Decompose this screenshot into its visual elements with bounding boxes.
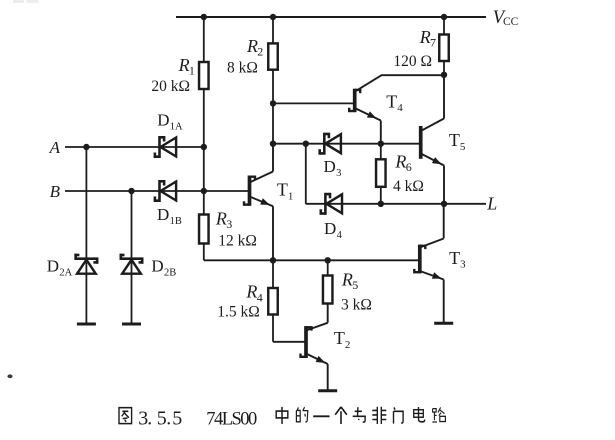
svg-text:B: B	[50, 182, 61, 201]
svg-text:.: .	[166, 408, 171, 430]
svg-text:D: D	[151, 256, 163, 275]
svg-text:D: D	[47, 256, 59, 275]
svg-text:3 kΩ: 3 kΩ	[341, 296, 372, 313]
svg-text:3: 3	[226, 217, 232, 231]
svg-text:2A: 2A	[59, 267, 72, 278]
svg-text:D: D	[157, 110, 169, 129]
svg-text:2: 2	[257, 44, 263, 58]
svg-text:6: 6	[406, 160, 412, 174]
svg-text:D: D	[157, 205, 169, 224]
svg-text:1: 1	[288, 190, 294, 202]
svg-text:20 kΩ: 20 kΩ	[151, 78, 190, 95]
svg-text:7: 7	[430, 36, 436, 50]
svg-text:5: 5	[352, 278, 358, 292]
svg-text:R: R	[394, 151, 406, 171]
svg-text:T: T	[386, 91, 397, 111]
svg-text:R: R	[178, 55, 190, 75]
svg-text:.: .	[147, 408, 152, 430]
svg-text:T: T	[277, 180, 288, 200]
svg-text:CC: CC	[503, 16, 519, 28]
svg-text:8 kΩ: 8 kΩ	[227, 60, 258, 77]
svg-text:3: 3	[460, 259, 466, 271]
svg-text:R: R	[341, 269, 353, 289]
svg-text:1B: 1B	[170, 216, 182, 227]
svg-text:3: 3	[336, 168, 341, 179]
svg-text:R: R	[245, 282, 257, 302]
svg-text:T: T	[449, 248, 460, 268]
svg-text:T: T	[449, 130, 460, 150]
svg-text:R: R	[246, 36, 258, 56]
svg-text:R: R	[419, 27, 431, 47]
svg-text:2B: 2B	[164, 267, 176, 278]
svg-text:1A: 1A	[170, 121, 183, 132]
svg-text:A: A	[49, 138, 61, 157]
svg-text:4: 4	[397, 102, 403, 114]
svg-text:D: D	[324, 157, 336, 176]
svg-text:5: 5	[172, 408, 182, 430]
svg-text:4: 4	[257, 290, 263, 304]
svg-text:74LS00: 74LS00	[206, 409, 257, 429]
svg-text:4: 4	[337, 230, 343, 241]
svg-text:R: R	[215, 209, 227, 229]
svg-text:D: D	[324, 219, 336, 238]
svg-text:5: 5	[460, 141, 466, 153]
svg-text:T: T	[334, 328, 345, 348]
svg-text:120 Ω: 120 Ω	[393, 53, 432, 70]
svg-text:1: 1	[189, 64, 195, 78]
svg-text:2: 2	[345, 339, 351, 351]
svg-text:1.5 kΩ: 1.5 kΩ	[217, 304, 260, 321]
svg-text:4 kΩ: 4 kΩ	[393, 178, 424, 195]
svg-text:12 kΩ: 12 kΩ	[218, 232, 257, 249]
svg-text:L: L	[486, 194, 497, 214]
svg-text:5: 5	[157, 408, 167, 430]
